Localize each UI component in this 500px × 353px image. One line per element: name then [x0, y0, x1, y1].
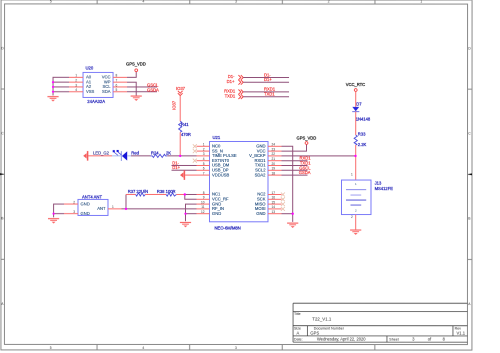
svg-text:5: 5: [203, 162, 205, 166]
svg-text:Title: Title: [294, 312, 301, 316]
svg-text:7: 7: [203, 171, 205, 175]
svg-text:GND: GND: [256, 211, 265, 216]
svg-text:16: 16: [271, 196, 275, 200]
svg-text:TXD1: TXD1: [264, 92, 275, 97]
svg-text:1: 1: [420, 0, 422, 4]
svg-text:GPS_VDD: GPS_VDD: [126, 62, 146, 67]
svg-text:4: 4: [203, 157, 205, 161]
svg-text:GND: GND: [212, 211, 221, 216]
svg-text:VSS: VSS: [86, 89, 95, 94]
svg-text:GND: GND: [80, 201, 89, 206]
svg-text:1N4148: 1N4148: [356, 117, 371, 122]
svg-text:A: A: [468, 302, 471, 306]
svg-text:2: 2: [351, 215, 353, 219]
svg-text:Red: Red: [131, 151, 139, 156]
svg-text:2K: 2K: [166, 150, 171, 155]
svg-text:6: 6: [116, 83, 118, 87]
svg-text:10: 10: [201, 200, 205, 204]
svg-text:T22_V1.1: T22_V1.1: [312, 316, 332, 321]
svg-text:1: 1: [203, 143, 205, 147]
svg-text:NEO-6M/M8N: NEO-6M/M8N: [214, 226, 240, 231]
svg-text:470R: 470R: [181, 132, 191, 137]
svg-text:7: 7: [116, 78, 118, 82]
svg-text:1: 1: [112, 205, 114, 209]
svg-text:4: 4: [75, 88, 77, 92]
svg-text:Wednesday, April 22, 2020: Wednesday, April 22, 2020: [317, 337, 366, 342]
svg-text:A: A: [296, 330, 299, 335]
svg-text:GSDA: GSDA: [299, 170, 311, 175]
svg-text:SDA2: SDA2: [255, 172, 267, 177]
svg-text:9: 9: [203, 196, 205, 200]
svg-text:TXD1: TXD1: [225, 93, 236, 98]
svg-text:5: 5: [50, 0, 52, 4]
svg-text:20: 20: [272, 162, 276, 166]
svg-text:R33: R33: [358, 132, 366, 137]
svg-text:D1+: D1+: [227, 79, 235, 84]
svg-text:3: 3: [412, 337, 415, 342]
svg-text:5: 5: [116, 88, 118, 92]
svg-text:Date:: Date:: [294, 337, 303, 341]
svg-text:C: C: [1, 131, 4, 135]
svg-text:8: 8: [203, 191, 205, 195]
svg-text:ANT4 ANT: ANT4 ANT: [82, 195, 102, 200]
svg-text:2: 2: [328, 0, 330, 4]
svg-text:2: 2: [203, 147, 205, 151]
svg-text:D7: D7: [356, 102, 362, 107]
svg-text:D1+: D1+: [264, 77, 272, 82]
svg-text:3: 3: [235, 346, 237, 350]
svg-text:MS412FE: MS412FE: [375, 186, 394, 191]
svg-text:V1.1: V1.1: [456, 330, 465, 335]
svg-text:15: 15: [271, 200, 275, 204]
svg-text:R38 100R: R38 100R: [157, 189, 176, 194]
svg-text:U21: U21: [213, 135, 221, 140]
svg-text:R41: R41: [181, 122, 189, 127]
svg-text:2: 2: [75, 78, 77, 82]
svg-text:D1+: D1+: [172, 165, 180, 170]
svg-text:3: 3: [235, 0, 237, 4]
svg-text:22: 22: [272, 152, 276, 156]
svg-text:IO37: IO37: [176, 86, 186, 91]
svg-text:GSDA: GSDA: [147, 87, 159, 92]
svg-text:B: B: [468, 217, 471, 221]
svg-text:of: of: [428, 337, 432, 342]
svg-text:21: 21: [272, 157, 276, 161]
svg-text:18: 18: [272, 171, 276, 175]
svg-text:VCC_RTC: VCC_RTC: [346, 82, 365, 87]
svg-text:8: 8: [443, 337, 446, 342]
svg-text:Sheet: Sheet: [389, 337, 398, 341]
svg-text:3: 3: [73, 210, 75, 214]
svg-text:3: 3: [75, 83, 77, 87]
svg-text:12: 12: [201, 210, 205, 214]
svg-text:ANT: ANT: [97, 206, 106, 211]
svg-text:14: 14: [271, 205, 275, 209]
svg-text:23: 23: [272, 147, 276, 151]
svg-text:LED_G2: LED_G2: [93, 150, 110, 155]
svg-text:J13: J13: [375, 181, 382, 186]
svg-text:D: D: [1, 46, 4, 50]
svg-text:4: 4: [142, 346, 144, 350]
svg-text:IO37: IO37: [171, 100, 176, 110]
svg-text:5: 5: [50, 346, 52, 350]
svg-text:2.2K: 2.2K: [358, 142, 367, 147]
svg-text:C: C: [468, 132, 471, 136]
svg-text:R37 22U/N: R37 22U/N: [128, 189, 148, 194]
svg-text:U20: U20: [86, 66, 94, 71]
svg-text:GPS: GPS: [310, 330, 319, 335]
svg-text:SDA: SDA: [102, 89, 111, 94]
svg-text:1: 1: [351, 173, 353, 177]
svg-text:GND: GND: [80, 211, 89, 216]
svg-text:6: 6: [203, 167, 205, 171]
svg-text:17: 17: [271, 191, 275, 195]
svg-text:B: B: [1, 216, 4, 220]
svg-text:24: 24: [272, 143, 276, 147]
svg-text:24AA32A: 24AA32A: [87, 99, 105, 104]
svg-text:3: 3: [203, 152, 205, 156]
svg-text:A: A: [1, 302, 4, 306]
svg-text:11: 11: [201, 205, 205, 209]
svg-text:GPS_VDD: GPS_VDD: [297, 135, 317, 140]
svg-text:1: 1: [75, 74, 77, 78]
svg-text:8: 8: [116, 74, 118, 78]
svg-text:VDDUSB: VDDUSB: [212, 172, 229, 177]
svg-text:2: 2: [73, 200, 75, 204]
svg-text:19: 19: [272, 167, 276, 171]
svg-text:4: 4: [142, 0, 144, 4]
svg-text:D: D: [468, 47, 471, 51]
svg-text:13: 13: [271, 210, 275, 214]
